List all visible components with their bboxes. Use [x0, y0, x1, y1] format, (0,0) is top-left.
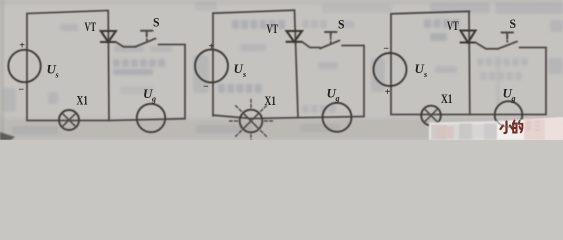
wire: bottom conductor circuit 1 — [27, 119, 185, 121]
gate source U circuit 2 — [323, 103, 352, 132]
wire: middle conductor circuit 2 — [295, 10, 299, 117]
wire: gate loop top-right circuit 2 — [342, 45, 364, 47]
censor band pink block — [436, 126, 454, 139]
paper grain — [0, 0, 1, 1]
lamp X1 circuit 1 — [59, 110, 79, 130]
bleed-through ghost text texture — [2, 2, 563, 134]
censor band bright white area around text — [497, 118, 563, 141]
lamp X1 light rays circuit 2 — [230, 100, 273, 141]
wire: bottom conductor circuit 2 — [213, 115, 364, 118]
voltage source Us circuit 2 — [195, 50, 228, 83]
switch S blade circuit 3 — [498, 42, 518, 50]
wire: top conductor circuit 3 — [391, 11, 470, 14]
voltage source Us circuit 1 — [8, 50, 40, 82]
censor band pale pink right part — [524, 119, 563, 140]
wire: gate loop top-right circuit 1 — [159, 44, 186, 46]
thyristor VT circuit 1 — [101, 31, 116, 42]
thyristor VT circuit 2 — [287, 31, 303, 42]
red text 的 — [513, 121, 522, 133]
censor band base strip — [429, 118, 563, 141]
wire: left conductor circuit 2 — [212, 13, 214, 116]
censor band gray mosaic blocks — [431, 124, 498, 140]
wire: left conductor circuit 1 — [26, 14, 28, 121]
switch S actuator dashed link circuit 2 — [330, 38, 332, 45]
wire: middle conductor circuit 3 — [468, 11, 471, 114]
gate wire circuit 3 — [476, 43, 498, 49]
red text 小 — [501, 122, 513, 134]
wire: top conductor circuit 2 — [213, 10, 295, 13]
wire: top conductor circuit 1 — [27, 11, 108, 14]
gate source U circuit 1 — [137, 104, 165, 132]
switch S blade circuit 1 — [136, 39, 156, 47]
wire: right conductor circuit 2 — [363, 46, 365, 117]
wire: right conductor circuit 1 — [184, 45, 186, 119]
dark smudge bottom-left scan edge — [0, 132, 15, 140]
faded pink character ghosts right of text — [526, 121, 541, 131]
switch S actuator T circuit 3 — [502, 33, 514, 39]
paper background — [0, 0, 563, 140]
left scan edge shading — [0, 0, 4, 140]
gate wire circuit 1 — [116, 42, 136, 47]
gate wire circuit 2 — [302, 42, 320, 48]
switch S contact dot circuit 1 — [146, 39, 148, 40]
switch S contact dot circuit 3 — [506, 41, 508, 42]
thyristor VT circuit 3 — [461, 31, 476, 43]
switch S blade circuit 2 — [320, 41, 340, 49]
gate source U circuit 3 — [495, 101, 523, 129]
scan shading — [0, 118, 563, 140]
wire: left conductor circuit 3 — [390, 14, 392, 115]
wire: gate loop top-right circuit 3 — [520, 47, 547, 49]
voltage source Us (reversed) circuit 3 — [374, 53, 407, 86]
lamp X1 circuit 3 — [421, 106, 441, 126]
lamp X1 (lit) circuit 2 — [240, 110, 263, 133]
switch S actuator T circuit 1 — [141, 31, 153, 37]
show-through arc of gate source U circuit 3 — [496, 118, 521, 127]
switch S actuator T circuit 2 — [325, 32, 337, 36]
wire: bottom conductor circuit 3 — [391, 114, 546, 116]
wire: right conductor circuit 3 — [545, 48, 547, 115]
wire: middle conductor (anode/cathode path) circuit 1 — [107, 11, 110, 121]
